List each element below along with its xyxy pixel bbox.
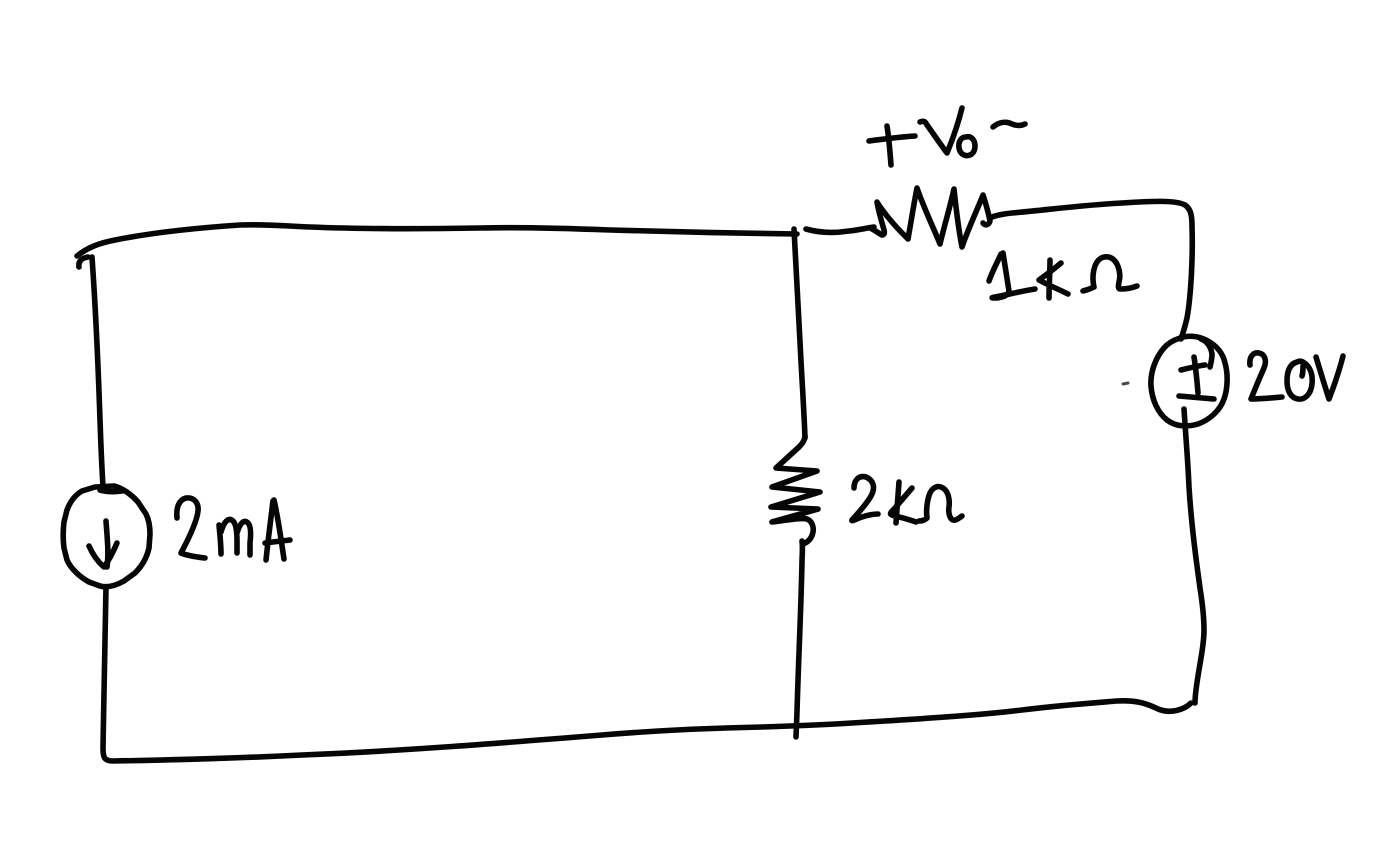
label +Vo- : plus sign bbox=[869, 126, 915, 165]
label 2mA : letter m bbox=[219, 519, 251, 555]
label 20V : digit 0 bbox=[1287, 361, 1312, 399]
current source arrow head bbox=[89, 543, 117, 567]
label 2mA : digit 2 bbox=[177, 498, 205, 558]
label 1k ohm : omega bbox=[1083, 257, 1137, 291]
voltage source top-right overlap ear bbox=[1201, 339, 1212, 367]
wire top horizontal from left corner to middle node bbox=[77, 225, 797, 256]
wire left vertical upper bbox=[92, 257, 103, 487]
label 1k ohm : digit 1 bbox=[989, 253, 1035, 298]
label +Vo- : letter V bbox=[920, 108, 962, 153]
wire top right segment into resistor bbox=[806, 227, 874, 232]
label 20V : digit 0 inner hook bbox=[1302, 366, 1303, 376]
wire from resistor to top-right corner and down bbox=[990, 201, 1192, 339]
current source I1 circle bbox=[63, 486, 150, 587]
label 1k ohm : letter k bbox=[1039, 260, 1068, 298]
current source arrow shaft bbox=[106, 521, 108, 567]
node A top-left corner hook bbox=[79, 257, 88, 267]
wire right vertical lower bbox=[1184, 409, 1204, 703]
label 2k ohm : digit 2 bbox=[852, 477, 878, 521]
voltage source V1 circle bbox=[1151, 336, 1227, 426]
voltage source plus-minus: top bar bbox=[1181, 365, 1205, 370]
resistor R2 2k zigzag (vertical) bbox=[771, 436, 820, 544]
voltage source plus-minus: bottom bar bbox=[1179, 396, 1214, 399]
label 2mA : letter A bbox=[265, 500, 290, 560]
voltage source plus-minus: vertical stroke bbox=[1194, 357, 1198, 393]
label 20V : digit 2 bbox=[1250, 353, 1282, 399]
label 2k ohm : omega bbox=[919, 487, 962, 521]
label 2k ohm : letter k bbox=[891, 482, 916, 523]
label +Vo- : minus tilde bbox=[993, 122, 1025, 127]
label +Vo- : subscript o bbox=[959, 137, 975, 156]
label 20V : letter V bbox=[1316, 356, 1343, 399]
small stray tick left of voltage source bbox=[1123, 383, 1128, 384]
wire middle vertical upper bbox=[794, 229, 805, 438]
wire middle vertical lower bbox=[796, 541, 802, 737]
resistor R1 1k zigzag (horizontal) bbox=[870, 188, 990, 247]
wire left vertical lower and bottom horizontal bbox=[103, 587, 1191, 761]
current source circle top overlap stroke bbox=[100, 490, 122, 492]
